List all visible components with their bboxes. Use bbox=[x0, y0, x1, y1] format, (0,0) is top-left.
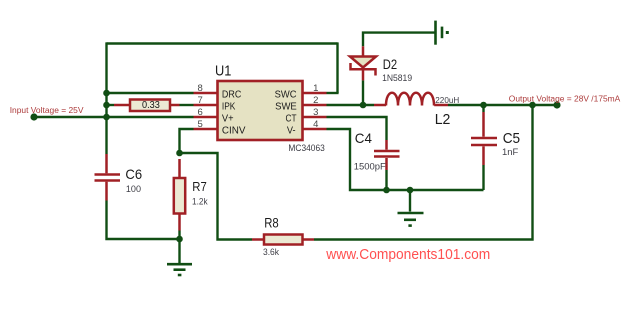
svg-text:2: 2 bbox=[313, 95, 318, 106]
wire: pin3 CT to C4 bbox=[327, 117, 387, 140]
svg-text:100: 100 bbox=[126, 183, 141, 194]
IC U1 MC34063 body bbox=[218, 81, 303, 140]
svg-text:IPK: IPK bbox=[222, 102, 236, 113]
wire: input to V+ (pin6) bbox=[34, 116, 194, 118]
node: C4 rail junction bbox=[383, 187, 390, 194]
svg-text:U1: U1 bbox=[215, 63, 231, 80]
resistor R7 leads bbox=[178, 159, 181, 178]
battery dot bbox=[446, 31, 449, 34]
node: pin7 junction bbox=[103, 102, 110, 109]
node: pin6 junction bbox=[103, 114, 110, 121]
svg-text:8: 8 bbox=[198, 83, 203, 94]
resistor 0.33 body bbox=[130, 100, 170, 112]
pin names bbox=[222, 90, 297, 137]
svg-text:1N5819: 1N5819 bbox=[382, 73, 412, 83]
node: R7 bottom ground junction bbox=[176, 236, 183, 243]
wire: R7 bottom to ground node bbox=[178, 231, 180, 240]
resistor R7 body bbox=[174, 178, 185, 214]
diode D2 triangle bbox=[350, 57, 376, 68]
wire: R8 right to output node bbox=[314, 105, 533, 240]
wire: C5 top lead green part bbox=[482, 105, 484, 112]
svg-text:1: 1 bbox=[313, 83, 318, 94]
svg-text:6: 6 bbox=[198, 107, 203, 118]
svg-text:www.Components101.com: www.Components101.com bbox=[325, 246, 490, 263]
ground 1 (bottom left) bbox=[167, 264, 192, 275]
diode D2 schottky bar bbox=[351, 63, 376, 76]
capacitor C4 leads bbox=[385, 140, 388, 150]
wire: ground2 stem bbox=[409, 190, 411, 212]
wire: L2 out to output terminal bbox=[448, 104, 557, 106]
svg-text:CINV: CINV bbox=[222, 126, 246, 137]
svg-text:L2: L2 bbox=[435, 112, 451, 128]
wire: node to R8 left bbox=[180, 153, 253, 240]
wire: pin5 CINV down to node bbox=[180, 129, 194, 153]
svg-text:V+: V+ bbox=[222, 114, 234, 125]
svg-text:SWC: SWC bbox=[275, 90, 297, 101]
battery cell symbol bbox=[436, 21, 443, 45]
svg-text:Input Voltage = 25V: Input Voltage = 25V bbox=[10, 105, 84, 115]
wire: C5 bottom to rail bbox=[482, 165, 484, 190]
resistor R8 body bbox=[264, 235, 303, 245]
wire: top loop DRC(pin8) to SWC(pin1) bbox=[107, 42, 339, 154]
capacitor C5 leads bbox=[482, 112, 485, 137]
svg-text:DRC: DRC bbox=[222, 90, 241, 101]
svg-text:MC34063: MC34063 bbox=[288, 143, 324, 153]
svg-text:C4: C4 bbox=[355, 130, 372, 146]
node: output/R8 junction bbox=[529, 102, 536, 109]
svg-text:3.6k: 3.6k bbox=[263, 247, 280, 257]
svg-text:CT: CT bbox=[286, 114, 297, 125]
svg-text:C6: C6 bbox=[125, 167, 142, 182]
svg-text:5: 5 bbox=[198, 119, 203, 130]
node: C5 top junction bbox=[480, 102, 487, 109]
wire: battery to D2 top bbox=[363, 33, 435, 47]
svg-text:220uH: 220uH bbox=[435, 95, 459, 105]
svg-text:1.2k: 1.2k bbox=[192, 197, 208, 207]
node: ground rail junction bbox=[407, 187, 414, 194]
wire: pin4 V- to ground rail bbox=[327, 129, 484, 190]
capacitor C6 leads bbox=[105, 154, 108, 173]
svg-text:7: 7 bbox=[198, 95, 203, 106]
inductor L2 leads bbox=[374, 104, 386, 107]
wire: pin7 IPK segments bbox=[107, 104, 115, 106]
wire: ground1 stem bbox=[178, 239, 180, 264]
diode D2 leads bbox=[362, 46, 365, 56]
node: pin8 junction bbox=[103, 90, 110, 97]
resistor R8 leads bbox=[252, 238, 264, 241]
svg-text:R7: R7 bbox=[192, 179, 207, 194]
svg-text:1500pF: 1500pF bbox=[354, 161, 386, 171]
svg-text:Output Voltage = 28V /175mA: Output Voltage = 28V /175mA bbox=[509, 94, 621, 104]
svg-text:1nF: 1nF bbox=[502, 147, 519, 157]
node: input terminal dot bbox=[30, 113, 37, 120]
wire: C6 bottom to ground node bbox=[107, 201, 180, 240]
svg-text:4: 4 bbox=[313, 119, 318, 130]
node: CINV/R7/R8 junction bbox=[176, 150, 183, 157]
svg-text:R8: R8 bbox=[264, 215, 279, 230]
IC U1 pin stubs bbox=[194, 93, 327, 129]
svg-text:0.33: 0.33 bbox=[142, 100, 160, 111]
node: output terminal dot bbox=[553, 101, 560, 108]
pin numbers bbox=[198, 83, 319, 130]
node: D2/SWE/L2 junction bbox=[360, 102, 367, 109]
svg-text:3: 3 bbox=[313, 107, 318, 118]
ground 2 (under rail) bbox=[398, 213, 424, 226]
capacitor C4 plates bbox=[374, 150, 400, 153]
svg-text:V-: V- bbox=[287, 126, 296, 137]
capacitor C5 plates bbox=[471, 137, 497, 140]
inductor L2 coils bbox=[386, 93, 434, 106]
wire: pin2 SWE to node bbox=[327, 104, 375, 106]
capacitor C6 plates bbox=[95, 173, 121, 176]
svg-text:C5: C5 bbox=[503, 131, 520, 147]
svg-text:D2: D2 bbox=[383, 57, 397, 72]
wire: D2 bottom to pin2 node bbox=[362, 80, 364, 105]
wire: C4 bottom to rail bbox=[385, 170, 387, 190]
resistor 0.33 (current sense) leads bbox=[114, 104, 130, 107]
svg-text:SWE: SWE bbox=[275, 102, 297, 113]
